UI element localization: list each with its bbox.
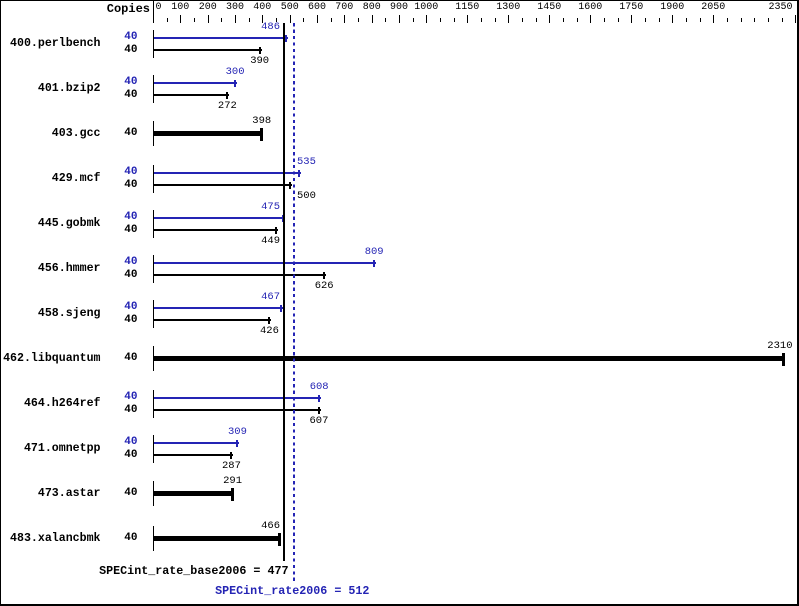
copies label 445.gobmk base <box>124 225 137 236</box>
copies label 471.omnetpp base <box>124 450 137 461</box>
bar end cap 429.mcf peak <box>298 170 300 177</box>
copies label 403.gcc base <box>124 128 137 139</box>
copies label 400.perlbench base <box>124 45 137 56</box>
tick label 500 <box>281 3 299 13</box>
border right <box>797 0 799 606</box>
copies label 464.h264ref peak <box>124 392 137 403</box>
minor tick 550 <box>303 18 304 22</box>
value label 464.h264ref peak <box>310 382 329 393</box>
row terminal 458.sjeng <box>153 300 154 328</box>
tick label 200 <box>199 3 217 13</box>
major tick 800 <box>372 15 373 23</box>
benchmark name 429.mcf <box>52 173 101 185</box>
row terminal 445.gobmk <box>153 210 154 238</box>
bar end cap 400.perlbench base <box>259 47 261 54</box>
bar 400.perlbench base (390 copies rate) <box>154 49 262 51</box>
minor tick 1350 <box>522 18 523 22</box>
bar end cap 462.libquantum base <box>782 353 785 366</box>
major tick 900 <box>399 15 400 23</box>
benchmark name 456.hmmer <box>38 263 101 275</box>
bar end cap 471.omnetpp base <box>230 452 232 459</box>
minor tick 2300 <box>782 18 783 22</box>
minor tick 1700 <box>618 18 619 22</box>
bar 403.gcc base (398 copies rate) <box>154 131 263 136</box>
major tick 1900 <box>672 15 673 23</box>
minor tick 650 <box>331 18 332 22</box>
bar 445.gobmk base (449 copies rate) <box>154 229 278 231</box>
summary SPECint_rate_base2006 = 477 <box>99 566 288 578</box>
value label 483.xalancbmk base <box>261 521 280 532</box>
tick label 600 <box>308 3 326 13</box>
border top <box>0 0 799 1</box>
major tick 2350 <box>795 15 796 23</box>
row terminal 483.xalancbmk <box>153 526 154 551</box>
tick label 1150 <box>455 3 479 13</box>
bar end cap 445.gobmk peak <box>282 215 284 222</box>
bar end cap 445.gobmk base <box>275 227 277 234</box>
minor tick 1800 <box>645 18 646 22</box>
value label 473.astar base <box>223 476 242 487</box>
copies label 464.h264ref base <box>124 405 137 416</box>
axis vertical separator <box>153 1 154 23</box>
copies label 429.mcf peak <box>124 167 137 178</box>
copies label 462.libquantum base <box>124 353 137 364</box>
minor tick 2250 <box>768 18 769 22</box>
value label 401.bzip2 peak <box>226 67 245 78</box>
value label 403.gcc base <box>252 116 271 127</box>
bar 464.h264ref peak (608 copies rate) <box>154 397 321 399</box>
row terminal 471.omnetpp <box>153 435 154 463</box>
benchmark name 445.gobmk <box>38 218 101 230</box>
minor tick 2000 <box>700 18 701 22</box>
bar 456.hmmer base (626 copies rate) <box>154 274 326 276</box>
bar end cap 464.h264ref peak <box>318 395 320 402</box>
bar end cap 456.hmmer base <box>323 272 325 279</box>
bar 473.astar base (291 copies rate) <box>154 491 234 496</box>
benchmark name 464.h264ref <box>24 398 101 410</box>
bar 445.gobmk peak (475 copies rate) <box>154 217 285 219</box>
value label 458.sjeng peak <box>261 292 280 303</box>
benchmark name 400.perlbench <box>10 38 100 50</box>
bar end cap 456.hmmer peak <box>373 260 375 267</box>
copies label 483.xalancbmk base <box>124 533 137 544</box>
bar 471.omnetpp peak (309 copies rate) <box>154 442 239 444</box>
copies label 401.bzip2 peak <box>124 77 137 88</box>
bar 429.mcf peak (535 copies rate) <box>154 172 301 174</box>
bar end cap 458.sjeng peak <box>280 305 282 312</box>
value label 462.libquantum base <box>767 341 792 352</box>
minor tick 850 <box>385 18 386 22</box>
row terminal 429.mcf <box>153 165 154 193</box>
tick label 1900 <box>660 3 684 13</box>
tick label 1300 <box>496 3 520 13</box>
major tick 700 <box>344 15 345 23</box>
minor tick 350 <box>249 18 250 22</box>
benchmark name 458.sjeng <box>38 308 101 320</box>
tick label 0 <box>156 3 162 13</box>
bar 400.perlbench peak (486 copies rate) <box>154 37 288 39</box>
copies label 400.perlbench peak <box>124 32 137 43</box>
minor tick 1250 <box>495 18 496 22</box>
major tick 1000 <box>426 15 427 23</box>
row terminal 401.bzip2 <box>153 75 154 103</box>
bar 429.mcf base (500 copies rate) <box>154 184 292 186</box>
minor tick 1200 <box>481 18 482 22</box>
value label 458.sjeng base <box>260 326 279 337</box>
bar end cap 400.perlbench peak <box>285 35 287 42</box>
tick label 900 <box>390 3 408 13</box>
major tick 1600 <box>590 15 591 23</box>
bar end cap 401.bzip2 base <box>226 92 228 99</box>
bar end cap 473.astar base <box>231 488 234 501</box>
row terminal 400.perlbench <box>153 30 154 58</box>
bar end cap 429.mcf base <box>289 182 291 189</box>
bar 456.hmmer peak (809 copies rate) <box>154 262 376 264</box>
minor tick 50 <box>167 18 168 22</box>
copies label 429.mcf base <box>124 180 137 191</box>
copies label 401.bzip2 base <box>124 90 137 101</box>
row terminal 456.hmmer <box>153 255 154 283</box>
bar end cap 471.omnetpp peak <box>236 440 238 447</box>
benchmark name 473.astar <box>38 488 101 500</box>
bar 458.sjeng base (426 copies rate) <box>154 319 271 321</box>
tick label 2050 <box>701 3 725 13</box>
copies label 471.omnetpp peak <box>124 437 137 448</box>
copies label 445.gobmk peak <box>124 212 137 223</box>
tick label 2350 <box>769 3 793 13</box>
tick label 1600 <box>578 3 602 13</box>
value label 445.gobmk peak <box>261 202 280 213</box>
copies label 456.hmmer peak <box>124 257 137 268</box>
major tick 1150 <box>467 15 468 23</box>
major tick 1300 <box>508 15 509 23</box>
minor tick 1050 <box>440 18 441 22</box>
value label 464.h264ref base <box>310 416 329 427</box>
benchmark name 471.omnetpp <box>24 443 101 455</box>
minor tick 1650 <box>604 18 605 22</box>
benchmark name 403.gcc <box>52 128 101 140</box>
SPECint_rate_base2006 reference line (477) <box>283 23 285 561</box>
minor tick 1500 <box>563 18 564 22</box>
row terminal 403.gcc <box>153 121 154 146</box>
minor tick 1100 <box>454 18 455 22</box>
tick label 1450 <box>537 3 561 13</box>
bar 401.bzip2 base (272 copies rate) <box>154 94 229 96</box>
bar end cap 483.xalancbmk base <box>278 533 281 546</box>
tick label 1750 <box>619 3 643 13</box>
minor tick 1400 <box>536 18 537 22</box>
bar end cap 403.gcc base <box>260 128 263 141</box>
bar end cap 401.bzip2 peak <box>234 80 236 87</box>
minor tick 150 <box>194 18 195 22</box>
value label 471.omnetpp peak <box>228 427 247 438</box>
minor tick 450 <box>276 18 277 22</box>
copies label 458.sjeng peak <box>124 302 137 313</box>
bar 462.libquantum base (2310 copies rate) <box>154 356 785 361</box>
benchmark name 401.bzip2 <box>38 83 101 95</box>
benchmark name 462.libquantum <box>3 353 100 365</box>
major tick 200 <box>208 15 209 23</box>
bar 471.omnetpp base (287 copies rate) <box>154 454 233 456</box>
header label Copies <box>107 3 150 15</box>
border bottom <box>0 604 799 606</box>
SPECint_rate2006 reference line (512, dotted) <box>293 23 295 583</box>
minor tick 2200 <box>754 18 755 22</box>
bar 401.bzip2 peak (300 copies rate) <box>154 82 237 84</box>
copies label 456.hmmer base <box>124 270 137 281</box>
major tick 600 <box>317 15 318 23</box>
value label 400.perlbench peak <box>261 22 280 33</box>
bar end cap 464.h264ref base <box>318 407 320 414</box>
row terminal 473.astar <box>153 481 154 506</box>
major tick 500 <box>290 15 291 23</box>
summary SPECint_rate2006 = 512 <box>215 586 369 598</box>
value label 429.mcf peak <box>297 157 316 168</box>
major tick 2050 <box>713 15 714 23</box>
major tick 300 <box>235 15 236 23</box>
tick label 100 <box>171 3 189 13</box>
bar end cap 458.sjeng base <box>268 317 270 324</box>
major tick 100 <box>180 15 181 23</box>
minor tick 1950 <box>686 18 687 22</box>
minor tick 950 <box>413 18 414 22</box>
tick label 400 <box>253 3 271 13</box>
major tick 1450 <box>549 15 550 23</box>
tick label 300 <box>226 3 244 13</box>
minor tick 2150 <box>741 18 742 22</box>
value label 445.gobmk base <box>261 236 280 247</box>
value label 471.omnetpp base <box>222 461 241 472</box>
minor tick 2100 <box>727 18 728 22</box>
row terminal 462.libquantum <box>153 346 154 371</box>
bar 458.sjeng peak (467 copies rate) <box>154 307 283 309</box>
minor tick 1850 <box>659 18 660 22</box>
border left <box>0 0 1 606</box>
benchmark name 483.xalancbmk <box>10 533 100 545</box>
copies label 473.astar base <box>124 488 137 499</box>
minor tick 250 <box>221 18 222 22</box>
tick label 700 <box>335 3 353 13</box>
value label 401.bzip2 base <box>218 101 237 112</box>
tick label 1000 <box>414 3 438 13</box>
value label 400.perlbench base <box>250 56 269 67</box>
row terminal 464.h264ref <box>153 390 154 418</box>
bar 483.xalancbmk base (466 copies rate) <box>154 536 281 541</box>
copies label 458.sjeng base <box>124 315 137 326</box>
value label 429.mcf base <box>297 191 316 202</box>
major tick 1750 <box>631 15 632 23</box>
major tick 400 <box>262 15 263 23</box>
value label 456.hmmer base <box>315 281 334 292</box>
value label 456.hmmer peak <box>365 247 384 258</box>
tick label 800 <box>363 3 381 13</box>
minor tick 1550 <box>577 18 578 22</box>
minor tick 750 <box>358 18 359 22</box>
bar 464.h264ref base (607 copies rate) <box>154 409 321 411</box>
